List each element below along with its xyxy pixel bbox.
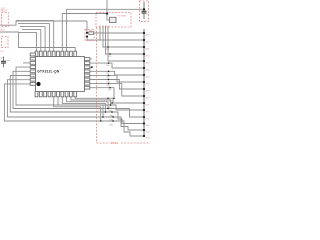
wire left bundle 3 [10,76,144,124]
node bundle l4 [112,116,114,118]
node merge b5 [102,116,104,118]
node mid r47 [107,46,109,48]
svg-text:AN8: AN8 [146,90,150,93]
pin 1 dot [36,82,40,86]
DNP box B left [2,37,9,48]
wire bottom b4 [54,97,101,121]
svg-text:RX5: RX5 [110,124,114,126]
svg-text:BN3: BN3 [146,125,150,127]
U1 bottom pins [35,92,77,97]
node bundle l5 [112,120,114,122]
node bundle l3 [111,111,113,113]
node mid p4 [108,70,110,72]
node merge b9 [107,97,109,99]
node merge b7 [107,108,109,110]
wire xtal sub a [100,26,144,41]
wire left bundle 2 [13,71,144,117]
wire R4 out2 [87,37,144,41]
svg-text:BN0: BN0 [146,105,150,107]
DNP box C1 top-right [140,1,149,22]
node merge b6 [105,111,107,113]
node mid p7 [108,83,110,85]
svg-text:C1: C1 [146,14,148,16]
node mid p6 [108,79,110,81]
svg-text:TX1: TX1 [106,73,109,75]
svg-text:RX3: RX3 [110,115,114,117]
svg-text:BN2: BN2 [146,119,150,121]
wire crystal stem [107,0,110,20]
DNP box crystal [96,13,131,28]
wire left bundle 5 [4,84,144,136]
svg-text:BN1: BN1 [146,112,150,114]
svg-text:BN5: BN5 [146,138,150,140]
svg-text:GTX312L-QN: GTX312L-QN [37,70,60,74]
svg-text:RX4: RX4 [110,119,114,121]
DNP box A top-left [2,13,9,27]
svg-text:BN4: BN4 [146,132,150,134]
wire bottom b8 [71,97,111,105]
svg-text:AN5: AN5 [146,69,150,72]
svg-text:TX4: TX4 [106,85,109,87]
wire right p2 [90,63,144,68]
node crystal junction [106,12,108,14]
svg-text:TX5: TX5 [108,90,111,92]
wire bottom b7 [67,97,108,109]
wire R4 out1 [94,32,145,34]
node R4 bottom [86,35,88,37]
wire left bundle 4 [7,80,144,130]
svg-text:Y1 XTAL: Y1 XTAL [118,15,127,18]
svg-text:TX3: TX3 [106,81,109,83]
IC U1 GTX312L-QN body [36,57,85,92]
resistor R4 body [89,32,94,35]
svg-text:AN4: AN4 [146,62,150,65]
wire net-left-B [0,32,75,51]
svg-text:AN0: AN0 [146,34,150,37]
svg-text:XO2: XO2 [108,56,112,58]
wire right p1 stub [90,58,92,60]
svg-text:TX2: TX2 [106,77,109,79]
module boundary dashed [97,28,151,144]
svg-text:AN7: AN7 [146,83,150,86]
node R4 top [86,32,88,34]
U1 left pins [30,53,35,85]
DNP box R4 [85,30,94,41]
wire riser VREF [67,9,144,51]
wire riser XIN [62,14,107,52]
capacitor C9 left [1,57,6,68]
wire xtal sub b [103,26,144,48]
svg-text:AN2: AN2 [146,48,150,51]
wire top nest 3 [18,24,49,52]
node mid p5 [108,75,110,77]
node p3 stub dot [91,66,93,68]
node merge b8 [110,104,112,106]
capacitor C1 top-right [142,2,147,19]
wire top nest 0 [19,33,37,52]
U1 top pins [35,51,77,56]
wire right p3 stub [90,66,92,68]
wire left pin stub [23,62,30,64]
wire left bundle 1 [16,67,144,110]
wire xtal sub d [108,26,144,62]
svg-text:R4: R4 [90,31,92,33]
svg-text:RX0: RX0 [109,100,113,102]
node C1 junction [143,8,145,10]
wire right p8 [90,88,114,99]
wire R4 stem [86,21,88,33]
node merge b4 [100,120,102,122]
wire bottom b6 [62,97,105,112]
crystal Y1 body [110,17,117,22]
wire right p4 [90,71,144,75]
wire right p5 [90,75,144,82]
svg-text:RX1: RX1 [108,107,112,109]
node mid r54 [109,53,111,55]
wire top nest 2 [20,27,45,52]
svg-text:MOD1: MOD1 [111,142,119,145]
wire top nest 4 [16,21,54,52]
svg-text:TP1 2: TP1 2 [1,9,8,12]
wire bus vertical [143,29,145,137]
svg-text:AN6: AN6 [146,76,150,79]
svg-text:1uF: 1uF [7,60,11,62]
wire xtal sub c [106,26,145,55]
wire right p6 [90,80,144,90]
node bus103 tap [111,102,113,104]
wire bottom b9 [75,97,144,103]
svg-text:AN1: AN1 [146,41,150,44]
U1 right pins [85,58,90,90]
mid wire labels [106,49,114,126]
svg-text:RX2: RX2 [109,110,113,112]
wire right p7 [90,84,144,96]
wire top nest 1 [22,30,41,52]
wire net-left-A [0,21,87,25]
node merge p8-b9 [113,97,115,99]
svg-text:AN3: AN3 [146,55,150,58]
wire bottom b5 [58,97,103,117]
node mid p8 [109,87,111,89]
svg-text:XO1: XO1 [106,49,110,51]
bus junction dots [143,32,145,137]
svg-text:AN9: AN9 [146,97,150,100]
bus net labels [146,34,151,140]
svg-text:TX0: TX0 [106,65,109,67]
node mid p2 [108,62,110,64]
